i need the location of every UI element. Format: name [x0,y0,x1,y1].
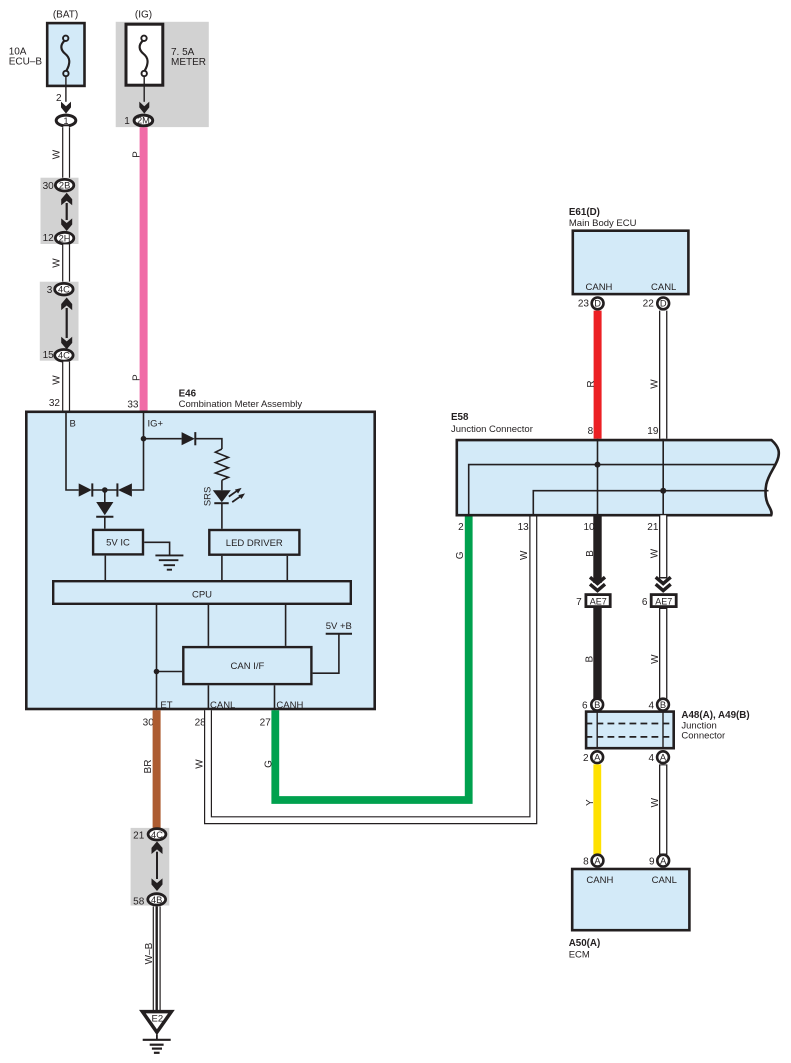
LED SRS [213,488,245,503]
svg-text:6: 6 [642,597,648,608]
svg-text:W: W [52,258,63,268]
svg-text:2H: 2H [59,233,71,243]
wire CAN I/F to pin 28 (CANL) [207,685,209,710]
svg-text:W: W [650,654,661,664]
node diode junction [102,487,108,493]
svg-text:19: 19 [647,426,659,437]
wire B (black) E58 pin 10 to AE7 [593,515,601,583]
wire between diodes [92,489,117,491]
wire LED DRIVER to CPU (left) [221,556,223,580]
svg-text:SRS: SRS [203,487,214,507]
svg-text:A: A [660,752,667,762]
svg-text:22: 22 [643,299,655,310]
fuse 7.5A METER (IG) [126,10,206,86]
svg-text:W: W [649,548,660,558]
svg-text:8: 8 [583,857,589,868]
wire resistor to LED [221,480,223,490]
svg-text:D: D [594,299,601,309]
connector oval 1 [56,115,76,126]
svg-text:5V +B: 5V +B [326,621,352,632]
E58 bus line 2 [533,491,768,516]
connector oval 4C top [55,283,73,295]
wire P (pink) 2M to pin 33 [140,127,148,410]
fuse 10A ECU-B (BAT) [9,10,85,86]
svg-text:Main Body ECU: Main Body ECU [569,218,637,229]
A48 dashed line 2 [586,736,675,738]
svg-text:CANH: CANH [276,700,303,711]
wire D4 to resistor [195,439,222,449]
E46 box [26,412,374,709]
wire D3 to 5V IC [104,517,106,529]
svg-text:2: 2 [458,522,464,533]
svg-text:Connector: Connector [681,731,725,742]
svg-text:30: 30 [43,181,55,192]
connector oval 2M [134,115,153,126]
5V IC box [93,530,143,555]
svg-text:B: B [585,550,596,557]
svg-text:5V IC: 5V IC [106,538,130,549]
svg-text:ET: ET [160,700,172,711]
svg-text:2B: 2B [59,180,70,190]
svg-text:R: R [586,380,597,387]
A48(A), A49(B) junction connector box [586,712,674,749]
E58 vertical pin 8 to 10 [597,439,599,517]
diode D1 (left, pointing right) [79,483,93,496]
svg-text:P: P [131,374,142,381]
svg-text:W: W [650,797,661,807]
svg-text:1: 1 [63,116,68,126]
svg-text:A: A [660,856,667,866]
wire CPU to CAN I/F (right) [285,605,287,646]
svg-text:A48(A), A49(B): A48(A), A49(B) [681,710,749,721]
connector oval 2B [55,179,73,191]
svg-text:ECM: ECM [569,949,590,960]
svg-text:33: 33 [127,400,139,411]
svg-text:2M: 2M [137,116,150,126]
pin circle A (9) [657,855,669,867]
wire ET from CPU to pin 30 [156,605,158,710]
diode D2 (right, pointing left) [117,483,131,496]
svg-text:Junction Connector: Junction Connector [451,424,533,435]
wire W (white) E58 pin 21 to AE7 [659,515,667,578]
wire CAN I/F to pin 27 (CANH) [274,685,276,710]
ground (5V IC) [144,542,183,569]
svg-text:E58: E58 [451,412,469,423]
E58 vertical pin 19 to 21 [662,439,664,517]
svg-text:7: 7 [576,597,582,608]
svg-text:4C: 4C [151,830,163,840]
svg-text:4: 4 [648,701,654,712]
wire W (white) 2H to 4C [62,244,70,281]
svg-text:E2: E2 [151,1013,163,1024]
svg-text:6: 6 [582,701,588,712]
svg-text:B: B [660,700,666,710]
E61(D) box [573,231,689,294]
wire junction to diode D3 [104,490,106,502]
wire from fuse ECU-B to connector 1 [65,76,67,102]
connector oval 4C bottom [55,350,73,362]
svg-text:BR: BR [143,760,154,774]
svg-text:CANL: CANL [652,875,677,886]
svg-text:E46: E46 [179,388,197,399]
svg-text:27: 27 [260,718,272,729]
wire W (white) fuse to 2B [62,126,70,179]
svg-text:CANH: CANH [586,875,613,886]
CPU box [53,581,351,604]
node IG+ branch [141,436,147,442]
svg-text:W: W [52,375,63,385]
double arrow between 4C and 4C [61,298,72,350]
svg-text:CPU: CPU [192,589,212,600]
junction connector 4C/4C gray box [40,282,79,361]
fuse 7.5A METER (IG) gray background [116,22,209,127]
connector box AE7 (6) [651,595,676,607]
wire G (green) pin 27 CANH to E58 pin 2 [275,515,468,800]
wire ET junction to CAN I/F [157,671,183,673]
svg-text:21: 21 [133,831,145,842]
junction connector 4C/4B gray box [131,828,170,906]
node bus1/CANH [595,462,601,468]
CAN I/F box [183,647,311,684]
svg-text:D: D [660,299,667,309]
wire LED DRIVER to CPU (right) [286,556,288,580]
node ET junction [154,669,160,675]
wire LED to LED DRIVER [221,503,223,529]
wire W (white) pin 28 CANL to E58 pin 13 [208,515,533,820]
wire R (red) E61 CANH to E58 pin 8 [594,311,602,439]
svg-text:A: A [594,752,601,762]
svg-text:E61(D): E61(D) [569,207,600,218]
pin circle A (4) [657,751,669,763]
junction connector 2B/2H gray box [41,178,79,244]
svg-text:CANL: CANL [651,282,676,293]
node bus2/CANL [660,488,666,494]
svg-text:2: 2 [583,753,589,764]
double arrow between 4C and 4B [152,841,163,891]
svg-text:15: 15 [43,350,55,361]
svg-text:ECU–B: ECU–B [9,56,43,67]
chevron arrows into AE7 (left) [590,577,605,590]
wire W (white) E61 CANL to E58 pin 19 [659,311,667,439]
wire 5V IC to CPU [104,556,106,580]
arrow into connector 1 [61,102,71,114]
svg-text:CANL: CANL [210,700,235,711]
svg-text:LED DRIVER: LED DRIVER [226,538,283,549]
svg-text:(BAT): (BAT) [53,10,78,21]
pin circle D (22) [657,298,669,310]
svg-text:Combination Meter Assembly: Combination Meter Assembly [179,399,303,410]
svg-text:IG+: IG+ [148,418,164,429]
diode D4 (pointing right) [182,432,196,445]
svg-text:23: 23 [578,299,590,310]
svg-text:12: 12 [43,233,55,244]
svg-text:30: 30 [143,718,155,729]
wire from fuse METER to connector 2M [143,76,145,102]
diode D3 (pointing down) [96,502,113,517]
A48 internal wire left [596,710,598,749]
svg-text:W: W [195,759,206,769]
svg-text:CANH: CANH [586,282,613,293]
wire W (white) AE7 to 4(B) [659,608,667,699]
svg-text:32: 32 [49,398,61,409]
pin circle A (2) [591,751,603,763]
pin circle D (23) [592,298,604,310]
wire CPU to CAN I/F (left) [207,605,209,646]
pin circle A (8) [592,855,604,867]
connector oval 2H [55,232,73,244]
svg-text:G: G [455,551,466,559]
wire IG+ branch to diode D4 [144,438,182,440]
svg-text:1: 1 [124,116,130,127]
chevron arrows into AE7 (right) [656,577,671,590]
wire W (white) 4(A) to 9(A) [659,764,667,854]
svg-text:4: 4 [648,753,654,764]
svg-text:B: B [585,655,596,662]
pin circle B (6) [591,699,603,711]
resistor [215,449,228,480]
svg-text:A50(A): A50(A) [569,938,601,949]
wire W (white) 4C to pin 32 [62,362,70,411]
E58 box with torn right edge [457,440,779,515]
A50(A) ECM box [572,869,689,930]
svg-text:9: 9 [649,857,655,868]
svg-text:P: P [131,151,142,158]
svg-text:21: 21 [647,522,659,533]
svg-text:AE7: AE7 [590,596,607,606]
svg-text:A: A [594,856,601,866]
svg-text:58: 58 [133,897,145,908]
svg-text:METER: METER [171,57,206,68]
svg-text:AE7: AE7 [655,596,672,606]
svg-text:B: B [594,700,600,710]
pin circle B (4) [657,699,669,711]
arrow into connector 2M [139,102,149,114]
svg-text:Y: Y [585,799,596,806]
svg-text:CAN I/F: CAN I/F [231,661,265,672]
svg-text:W–B: W–B [144,942,155,964]
svg-text:W: W [649,379,660,389]
svg-text:4C: 4C [58,351,70,361]
A48 internal wire right [662,710,664,749]
A48 dashed line 1 [586,723,675,725]
svg-text:G: G [264,760,275,768]
ground E2 [142,1012,171,1053]
svg-text:(IG): (IG) [135,10,152,21]
wire W-B (white/black stripe) 4B to ground E2 [153,906,161,1010]
wire 5V +B to CAN I/F [313,634,352,674]
svg-text:3: 3 [47,285,53,296]
svg-text:8: 8 [588,426,594,437]
E58 bus line 1 [469,465,777,516]
LED DRIVER box [209,530,299,555]
svg-text:B: B [70,418,76,429]
wire B inside E46 [66,411,79,491]
double arrow between 2B and 2H [61,193,72,231]
wire B (black) AE7 to 6(B) [593,608,601,699]
connector oval 4C [148,829,166,840]
svg-text:4B: 4B [151,895,162,905]
svg-text:W: W [52,149,63,159]
wire Y (yellow) 2(A) to 8(A) [593,764,601,854]
svg-text:13: 13 [518,522,530,533]
connector oval 4B [148,894,166,905]
wire BR (brown) pin 30 to 4C [153,710,161,829]
wire IG+ inside E46 [132,411,144,491]
connector box AE7 (7) [586,595,610,607]
svg-text:W: W [519,550,530,560]
svg-text:4C: 4C [58,284,70,294]
